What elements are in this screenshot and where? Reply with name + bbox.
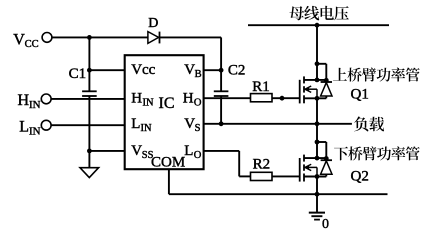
svg-text:CC: CC [25,39,39,50]
svg-text:V: V [184,116,195,132]
svg-text:IN: IN [143,97,154,108]
svg-text:O: O [194,97,202,108]
svg-text:C2: C2 [228,62,246,78]
svg-text:R1: R1 [252,79,270,95]
svg-text:O: O [194,150,202,161]
svg-text:B: B [195,69,202,80]
svg-text:S: S [195,123,201,134]
svg-text:H: H [18,92,30,109]
svg-text:0: 0 [322,217,329,231]
svg-text:H: H [183,91,194,107]
svg-text:Vcc: Vcc [131,62,155,78]
svg-text:C1: C1 [69,66,87,82]
svg-text:IC: IC [159,95,175,112]
svg-text:IN: IN [141,123,152,134]
svg-text:COM: COM [151,155,185,171]
svg-text:V: V [184,62,195,78]
svg-text:L: L [184,143,193,159]
svg-text:IN: IN [29,125,41,137]
svg-text:V: V [13,31,25,48]
svg-text:IN: IN [29,99,41,111]
svg-text:Q2: Q2 [351,168,369,184]
svg-text:L: L [131,116,140,132]
svg-text:R2: R2 [253,157,271,173]
svg-text:Q1: Q1 [351,87,369,103]
svg-text:L: L [19,119,29,136]
svg-text:H: H [131,91,142,107]
svg-text:D: D [148,16,158,31]
svg-text:V: V [131,143,142,159]
